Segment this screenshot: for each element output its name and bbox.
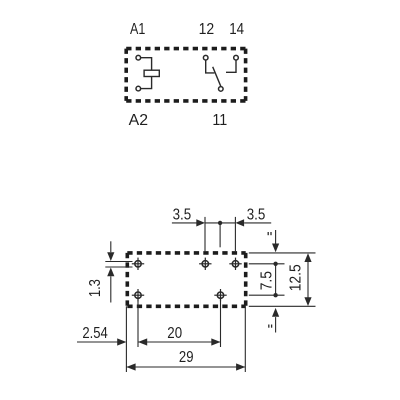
- svg-text:2.54: 2.54: [82, 325, 108, 342]
- footprint outline (dashed box): [127, 253, 245, 306]
- svg-text:A1: A1: [130, 21, 145, 38]
- wire 12 stub: [206, 60, 215, 73]
- svg-text:3.5: 3.5: [173, 206, 192, 223]
- terminal 11: [219, 87, 224, 92]
- hole A1: [132, 258, 144, 270]
- svg-text:29: 29: [179, 349, 194, 366]
- ditto arrow bottom (points up to box bottom edge): [272, 308, 279, 333]
- 1.3 tangent lines (hole diameter): [105, 262, 132, 268]
- terminal A2: [136, 86, 141, 91]
- ditto mark bottom: [269, 325, 272, 328]
- svg-text:7.5: 7.5: [258, 271, 275, 290]
- wire 14 stub: [226, 60, 236, 72]
- svg-text:A2: A2: [129, 112, 148, 129]
- 3.5 dimension line: [172, 219, 271, 226]
- 1.3 dimension arrows: [107, 241, 114, 302]
- extension below: pin 11 column: [220, 295, 222, 347]
- wire A1 to coil: [141, 58, 152, 70]
- terminal 12: [203, 55, 208, 60]
- 12.5 dimension line: [304, 253, 311, 306]
- svg-text:12.5: 12.5: [287, 264, 304, 291]
- svg-text:20: 20: [167, 325, 182, 342]
- extension line col 12 above: [204, 217, 206, 251]
- hole A2: [132, 289, 144, 301]
- ditto arrow top (points down to box top edge): [272, 230, 279, 252]
- center dot on 3.5 dim: [218, 221, 222, 225]
- hole 12: [199, 258, 211, 270]
- extension below: box left: [125, 306, 127, 372]
- 20 dimension line: [138, 338, 221, 345]
- svg-text:1.3: 1.3: [87, 279, 104, 297]
- svg-text:3.5: 3.5: [247, 206, 266, 223]
- coil: [144, 70, 159, 76]
- box top edge extension (right): [249, 252, 316, 254]
- relay outline (dashed box): [126, 49, 245, 101]
- terminal A1: [136, 55, 141, 60]
- center line: [219, 223, 221, 247]
- 29 dimension line: [126, 363, 245, 370]
- ditto mark top: [268, 232, 271, 235]
- 2.54 leader line with arrow: [77, 338, 126, 345]
- wire A2 to coil: [141, 77, 152, 89]
- svg-text:11: 11: [212, 112, 227, 129]
- svg-text:14: 14: [229, 21, 244, 38]
- box bottom edge extension (right): [249, 305, 316, 307]
- contact blade: [213, 67, 221, 87]
- top hole row extension (right): [249, 263, 285, 265]
- svg-text:12: 12: [199, 21, 215, 38]
- extension below: A column: [137, 295, 139, 347]
- 7.5 dimension line with end dots: [273, 262, 277, 298]
- terminal 14: [234, 55, 239, 60]
- bottom hole row extension (right): [249, 294, 285, 296]
- extension line col 14 above: [234, 217, 236, 251]
- hole 11: [214, 289, 226, 301]
- hole 14: [229, 258, 241, 270]
- extension below: box right: [244, 306, 246, 372]
